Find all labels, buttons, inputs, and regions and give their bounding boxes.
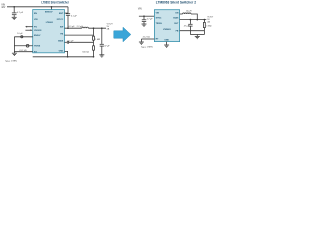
svg-text:INTVCC: INTVCC	[57, 19, 64, 21]
svg-text:TR/SS: TR/SS	[34, 45, 41, 47]
svg-text:LTM8063 Silent Switcher 2: LTM8063 Silent Switcher 2	[156, 1, 196, 5]
svg-text:2A: 2A	[207, 20, 210, 23]
arrow big	[114, 27, 131, 42]
wire VIN pin drop	[51, 7, 53, 10]
svg-text:SYNC: SYNC	[156, 18, 162, 20]
wire divider vertical	[93, 28, 95, 57]
svg-text:GND: GND	[59, 51, 64, 53]
ground RT right	[139, 42, 144, 44]
node dot rail end	[93, 56, 95, 58]
svg-text:47 µF: 47 µF	[104, 45, 110, 47]
svg-text:0.1 µF: 0.1 µF	[68, 41, 75, 43]
svg-text:GND: GND	[164, 40, 169, 42]
svg-text:BIAS: BIAS	[58, 40, 64, 43]
svg-text:EN: EN	[176, 12, 179, 14]
svg-text:= 1 MHz: = 1 MHz	[145, 47, 153, 49]
svg-text:41.2 kΩ: 41.2 kΩ	[143, 35, 151, 38]
resistor R1 1M	[93, 36, 95, 40]
ground rail right symbol	[195, 36, 200, 38]
wire box GND drop	[166, 42, 168, 45]
wire SW	[65, 27, 82, 29]
capacitor BST 0.1uF	[66, 14, 70, 29]
svg-text:= 1 MHz: = 1 MHz	[9, 60, 17, 62]
resistor R right 1M	[204, 20, 206, 35]
wire EN pin	[14, 36, 32, 38]
svg-text:1 MΩ: 1 MΩ	[206, 24, 211, 27]
wire TR/SS pin	[14, 45, 32, 47]
svg-text:VIN: VIN	[1, 4, 5, 6]
wire VIN right	[139, 15, 155, 17]
wire SW right stub	[180, 13, 183, 15]
node dot vin right	[143, 15, 145, 17]
wire ground rail	[33, 56, 94, 58]
wire BST stub	[65, 12, 69, 14]
svg-text:0.1 µF: 0.1 µF	[71, 16, 78, 18]
wire SW to VOUT	[88, 27, 106, 29]
svg-text:VIN: VIN	[34, 19, 38, 21]
svg-text:FB: FB	[60, 33, 63, 35]
wire ground rail right	[190, 34, 204, 36]
svg-text:FB: FB	[176, 31, 179, 33]
svg-text:41.2 kΩ: 41.2 kΩ	[19, 49, 27, 52]
svg-text:47 µF: 47 µF	[184, 25, 190, 27]
resistor R2	[93, 46, 95, 50]
wire FB right	[180, 30, 205, 32]
svg-text:TR/SS: TR/SS	[156, 23, 163, 25]
inductor L1	[82, 27, 89, 28]
ground COUT	[99, 55, 104, 57]
wire VIN rail	[7, 6, 68, 8]
svg-text:10 µF: 10 µF	[17, 33, 23, 35]
svg-text:LTM8063: LTM8063	[163, 29, 171, 31]
svg-text:1 MΩ: 1 MΩ	[95, 38, 100, 41]
wire RT pin	[14, 51, 32, 53]
svg-text:SW: SW	[60, 26, 63, 28]
svg-text:EN: EN	[34, 13, 37, 15]
node dot cout	[101, 27, 103, 29]
ground CIN	[12, 17, 17, 19]
node dot out2	[196, 19, 198, 21]
wire FB	[65, 34, 94, 36]
svg-text:EN/UV: EN/UV	[45, 11, 53, 13]
ground box right	[164, 45, 169, 47]
capacitor CIN right	[142, 16, 146, 24]
ground CIN right	[142, 24, 147, 26]
svg-text:EN/UV: EN/UV	[34, 35, 41, 37]
wire SYNC with arrow in	[25, 29, 30, 31]
svg-text:SYNC/MODE: SYNC/MODE	[34, 30, 42, 32]
capacitor COUT right	[188, 20, 192, 35]
op-amp U2 LTM8063 box	[154, 10, 179, 42]
svg-text:500 kΩ: 500 kΩ	[82, 51, 89, 54]
svg-text:OUT: OUT	[174, 23, 179, 25]
wire RT right	[141, 38, 154, 40]
capacitor COUT 47uF	[100, 28, 104, 54]
svg-text:2A: 2A	[107, 28, 110, 31]
node dot BST/SW	[67, 27, 69, 29]
wire GND stub	[65, 51, 68, 56]
svg-text:PG: PG	[34, 27, 37, 29]
node dot gnd stub	[67, 56, 69, 58]
svg-text:BIAS: BIAS	[173, 17, 179, 20]
wire left bus	[13, 37, 15, 53]
node dot out3	[204, 19, 206, 21]
op-amp U1 LT8602 box	[33, 10, 65, 53]
node circle component EN	[21, 36, 23, 38]
svg-text:BST: BST	[59, 13, 64, 15]
svg-text:42V: 42V	[1, 7, 6, 9]
svg-text:4.7 µF: 4.7 µF	[147, 18, 154, 20]
wire OUT right	[180, 19, 207, 21]
capacitor INTVCC series	[67, 41, 93, 44]
wire RT drop	[140, 39, 142, 42]
node dot out1	[190, 19, 192, 21]
wire ground drop right	[196, 35, 198, 37]
wire PG with arrow out	[26, 26, 32, 28]
node circle component TRSS	[26, 44, 29, 47]
svg-text:VIN: VIN	[138, 8, 142, 10]
node junction dot VIN rail	[13, 6, 15, 8]
svg-text:10 µH: 10 µH	[186, 10, 192, 12]
wire L to out	[191, 14, 197, 20]
node junction dot VIN pin	[51, 6, 53, 8]
node dot divider	[93, 27, 95, 29]
svg-text:LT8602 Silent Switcher: LT8602 Silent Switcher	[41, 1, 69, 5]
svg-text:LT8602: LT8602	[46, 22, 54, 24]
wire INTVCC	[65, 41, 67, 43]
wire rail elbow to BST cap	[67, 7, 69, 14]
capacitor CIN 4.7uF	[12, 7, 17, 17]
svg-text:VIN: VIN	[156, 12, 160, 14]
svg-text:4.7 µF: 4.7 µF	[17, 12, 24, 14]
ground left bus	[12, 53, 17, 55]
inductor L right	[183, 13, 191, 14]
